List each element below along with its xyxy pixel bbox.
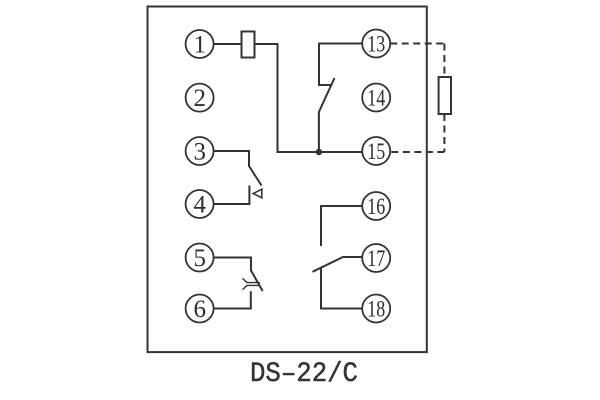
svg-text:16: 16 — [367, 194, 385, 220]
dashed wire external resistor bottom down — [443, 114, 445, 152]
dashed wire terminal 13 to external resistor — [390, 43, 444, 45]
terminal 16 — [362, 192, 390, 220]
wire from resistor down to node A — [255, 44, 317, 152]
svg-text:15: 15 — [367, 139, 385, 165]
wire from terminal 17 and contact blade 17-18 — [313, 257, 363, 272]
terminal 13 — [362, 30, 390, 58]
wire from terminal 3 and contact blade 3-4 — [214, 151, 262, 186]
svg-text:DS–22/C: DS–22/C — [250, 359, 358, 390]
wire from terminal 18 up — [321, 268, 362, 309]
dashed wire to terminal 15 — [390, 151, 444, 153]
terminal 15 — [362, 137, 390, 165]
relay case border — [148, 7, 427, 353]
fixed contact double bar of terminal 6 — [247, 283, 260, 286]
terminal 4 — [186, 190, 214, 219]
svg-text:1: 1 — [194, 32, 207, 59]
wire from terminal 1 to resistor R — [214, 43, 242, 45]
terminal 17 — [362, 244, 390, 272]
terminal 14 — [362, 84, 390, 112]
terminal 6 — [186, 295, 214, 324]
svg-text:17: 17 — [367, 246, 385, 272]
external resistor R1 — [439, 77, 451, 114]
terminal 3 — [186, 137, 214, 166]
svg-text:14: 14 — [367, 85, 385, 111]
svg-text:13: 13 — [367, 31, 385, 57]
wire from terminal 13 to contact bar — [319, 44, 362, 86]
svg-text:3: 3 — [194, 139, 207, 166]
dashed wire down to external resistor top — [443, 44, 445, 78]
svg-text:4: 4 — [194, 192, 207, 219]
node A junction dot — [316, 149, 322, 155]
terminal 2 — [186, 84, 214, 113]
svg-text:5: 5 — [194, 245, 207, 272]
svg-text:2: 2 — [194, 85, 207, 112]
terminal 18 — [362, 295, 390, 323]
wire from terminal 4 up to fixed contact — [214, 186, 250, 205]
svg-text:18: 18 — [367, 296, 385, 322]
wire from terminal 6 — [214, 291, 251, 308]
resistor R (coil series resistor) — [242, 32, 255, 58]
wire from terminal 16 down (open contact) — [321, 206, 362, 246]
terminal 5 — [186, 244, 214, 273]
wire from terminal 5 and contact blade 5-6 — [214, 258, 263, 292]
contact blade 13-15 (closed contact) — [319, 78, 335, 152]
terminal 1 — [186, 30, 214, 59]
fixed contact triangle of terminal 4 — [253, 189, 262, 198]
wire node A to terminal 15 — [319, 151, 362, 153]
fixed contact fork — [243, 278, 248, 289]
svg-text:6: 6 — [194, 296, 207, 323]
